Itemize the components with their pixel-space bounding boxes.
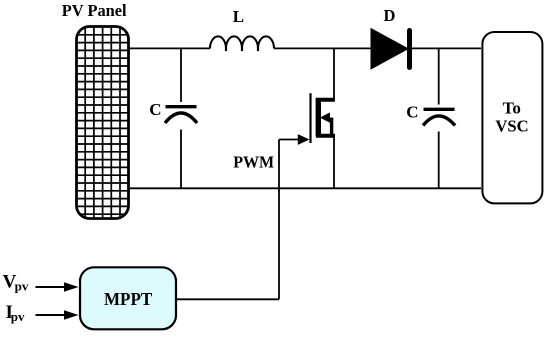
MPPT block [80,267,176,329]
svg-text:D: D [384,6,396,25]
wire top rail: diode cathode to VSC block [412,47,481,49]
svg-text:PV Panel: PV Panel [62,1,127,20]
svg-text:MPPT: MPPT [104,289,153,309]
svg-text:pv: pv [11,309,25,324]
PV panel [77,27,130,219]
wire MOSFET source to bottom rail [333,134,335,188]
label D [384,6,396,25]
capacitor C2 (output) [423,48,455,188]
svg-text:To: To [503,99,521,118]
svg-text:PWM: PWM [233,153,274,172]
wire top rail: panel to inductor [128,47,210,49]
wire bottom rail [128,187,481,189]
label C (output cap) [406,103,418,122]
svg-text:L: L [233,7,244,26]
capacitor C1 (input) [165,48,197,188]
label C (input cap) [149,100,161,119]
inductor L [210,36,274,51]
svg-text:pv: pv [15,279,29,294]
To VSC block [482,32,542,203]
label Vpv [3,272,29,294]
label Ipv [6,302,26,324]
diode D [371,29,410,69]
wire drain branch down to MOSFET [333,48,335,100]
label PV Panel [62,1,127,20]
MOSFET Q1 [311,93,335,143]
input Vpv arrow [36,282,79,291]
svg-text:C: C [149,100,161,119]
svg-text:C: C [406,103,418,122]
wire top rail: inductor to diode anode [274,47,371,49]
label PWM [233,153,274,172]
input Ipv arrow [36,310,79,319]
label L [233,7,244,26]
gate wire with arrowhead from PWM node [279,134,310,145]
wire MPPT output to PWM vertical [176,298,279,300]
wire PWM vertical down to MPPT output [278,140,280,300]
svg-text:VSC: VSC [495,117,528,136]
